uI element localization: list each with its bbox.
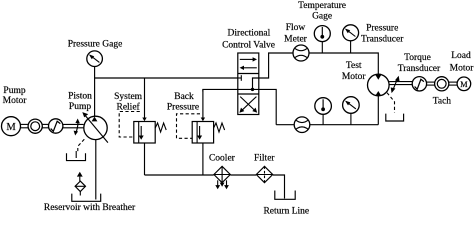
wire cooler to filter [231,174,257,176]
svg-text:Motor: Motor [342,72,367,82]
svg-text:Cooler: Cooler [209,153,236,163]
wire filter to return tank [273,175,285,199]
back pressure valve RV2 [192,122,213,144]
temperature gage TG2 [315,98,332,115]
directional control valve DCV1 [238,53,259,115]
rotation arrow on test motor shaft [391,76,400,93]
load motor M2 [457,77,471,91]
torque transducer S2 [412,77,426,91]
svg-text:Relief: Relief [116,101,140,112]
svg-text:Flow: Flow [286,23,306,33]
svg-text:Pressure Gage: Pressure Gage [68,39,123,49]
svg-text:Pressure: Pressure [366,24,398,34]
back pressure valve RV2 spring [214,123,225,132]
svg-text:Pump: Pump [3,86,25,96]
DCV1 crossed arrows [239,97,257,113]
pressure transducer PT1 stem [350,41,352,53]
svg-text:Filter: Filter [254,153,275,163]
cooler HX1 [214,166,230,189]
wire back pressure inlet drop [202,89,204,119]
coupling CP2 [435,77,449,91]
back pressure valve RV2 pilot dashed [177,114,201,139]
svg-text:Back: Back [174,92,194,102]
DCV1 top box arrows [240,57,257,70]
wire system relief inlet drop [144,78,146,120]
coupling CP1 [28,119,42,133]
drain tank T1 [67,153,86,160]
pressure transducer PT2 [343,97,360,114]
shaft pickup-pump [63,124,84,127]
wire T-return manifold y=89.4 [203,89,276,124]
shaft torque transducer-coupling [427,82,435,85]
svg-text:Motor: Motor [3,96,28,106]
DCV1 blocked P port [238,75,242,81]
relief valve RV1 spring [155,123,166,132]
svg-text:Piston: Piston [68,91,92,101]
flow meter FM2 (bottom) [294,117,310,133]
flow meter FM1 [293,45,309,61]
electric motor M1 [2,117,21,136]
relief valve RV1 pilot dashed [119,112,140,138]
shaft test motor-torque transducer [389,82,413,85]
pressure gage PG1 [87,51,103,67]
rotation arrow on pump shaft [74,119,80,136]
wire return line to cooler [145,174,214,176]
svg-text:Test: Test [346,61,362,71]
pressure transducer PT2 stem [350,113,352,124]
filter F1 [256,166,272,182]
svg-text:M: M [6,122,16,133]
temperature gage TG2 stem [322,114,324,124]
speed pickup S1 [49,119,63,133]
wire back pressure drain down [202,143,204,175]
svg-text:Pump: Pump [69,102,91,112]
svg-text:Load: Load [451,51,471,61]
shaft coupling-load motor [449,82,458,85]
back pressure valve RV2 inlet arrowhead [201,118,205,122]
drain tank T3 [386,114,404,121]
wire relief drain down [144,143,146,175]
temperature gage TG1 stem [321,42,323,53]
svg-text:Control Valve: Control Valve [222,40,275,50]
piston pump P1 [82,112,108,143]
wire bottom return row y=124.7 [276,124,378,126]
svg-text:Reservoir with Breather: Reservoir with Breather [44,203,136,213]
svg-text:System: System [114,92,143,102]
return tank T4 [275,191,295,200]
relief valve RV1 inlet arrowhead [142,118,146,122]
svg-text:Gage: Gage [312,12,332,22]
wire valve A-port to riser [253,53,379,89]
svg-text:Transducer: Transducer [361,35,404,45]
svg-text:Temperature: Temperature [298,1,346,11]
pump case drain dashed [78,139,85,152]
drain stub into tank [75,151,77,158]
svg-text:M: M [460,80,468,89]
shaft M1-coupling [21,124,29,127]
wire pump outlet / gage stem (vertical x=94.6) [94,66,96,116]
svg-text:Tach: Tach [433,97,452,107]
shaft coupling-speed pickup [42,124,48,127]
svg-text:Motor: Motor [450,63,474,73]
relief valve RV1 [134,122,155,144]
temperature gage TG1 [314,26,330,42]
wire pump suction from reservoir [95,140,97,200]
wire test motor bottom to return row [377,96,379,125]
breather B1 [75,172,85,196]
svg-text:Torque: Torque [404,53,431,63]
svg-text:Transducer: Transducer [398,64,441,74]
DCV1 junction dot [251,88,254,91]
svg-text:Directional: Directional [228,28,271,38]
svg-text:Pressure: Pressure [167,102,199,112]
reservoir T2 [72,194,101,202]
test motor case drain dashed [387,93,395,113]
svg-text:Return Line: Return Line [263,206,309,216]
test motor HM1 [368,74,390,96]
pressure transducer PT1 [343,25,359,41]
wire supply manifold y=78 [95,77,238,79]
svg-text:Meter: Meter [284,34,308,44]
